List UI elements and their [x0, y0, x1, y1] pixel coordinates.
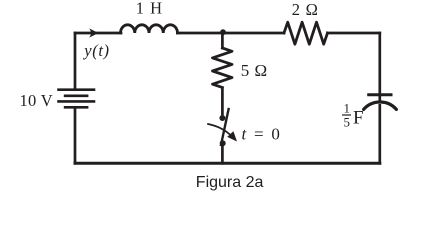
wire top rail middle segment: [178, 32, 285, 35]
wire right branch bottom: [378, 105, 381, 163]
battery V1 plate 3 long positive: [57, 100, 95, 103]
svg-text:5 Ω: 5 Ω: [241, 61, 267, 80]
svg-text:t = 0: t = 0: [242, 125, 280, 144]
svg-text:F: F: [353, 108, 364, 129]
wire middle branch bottom: [221, 146, 224, 163]
wire top rail right segment: [328, 32, 380, 35]
switch SW1 arrowhead: [227, 131, 237, 141]
battery V1 plate 1 long positive: [57, 88, 95, 91]
svg-text:1 H: 1 H: [136, 0, 162, 18]
resistor R2 5 ohm: [213, 48, 233, 88]
switch SW1 bottom contact dot: [220, 140, 226, 146]
wire bottom rail: [75, 162, 380, 165]
battery V1 plate 2 short negative: [64, 95, 89, 98]
current direction arrowhead y(t): [89, 28, 98, 37]
wire middle branch between resistor and switch: [221, 88, 224, 114]
svg-text:1: 1: [344, 101, 351, 116]
switch SW1 top contact dot: [219, 115, 225, 121]
switch SW1 actuation arc: [208, 124, 231, 135]
wire left branch top: [74, 33, 77, 88]
svg-text:y(t): y(t): [82, 41, 109, 60]
wire top rail left segment: [75, 32, 121, 35]
node junction dot top of middle branch: [220, 29, 226, 35]
svg-text:10 V: 10 V: [20, 91, 53, 110]
resistor R1 2 ohm: [284, 22, 328, 44]
inductor L1 1 H: [121, 25, 178, 33]
capacitor C1 flat plate: [367, 93, 392, 96]
capacitor C1 curved plate: [364, 102, 397, 109]
wire right branch top: [378, 33, 381, 100]
wire middle branch top: [221, 33, 224, 48]
battery V1 plate 4 short negative: [64, 106, 89, 109]
svg-text:5: 5: [344, 115, 351, 130]
svg-text:2 Ω: 2 Ω: [292, 0, 318, 19]
wire left branch bottom: [74, 109, 77, 164]
label capacitor fraction bar: [342, 114, 351, 115]
svg-text:Figura 2a: Figura 2a: [196, 174, 264, 191]
switch SW1 blade: [221, 109, 229, 145]
